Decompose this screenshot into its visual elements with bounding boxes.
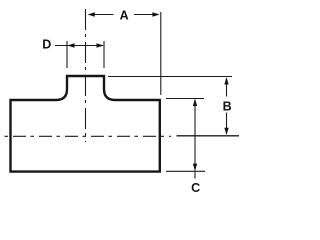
dimension D line (55, 45, 103, 47)
svg-text:A: A (120, 9, 129, 23)
svg-text:C: C (191, 181, 200, 195)
vertical centerline (branch axis) (85, 9, 87, 142)
dimension A line (left segment) (89, 14, 114, 16)
extension line for A (right end of body) (160, 12, 162, 95)
svg-text:D: D (42, 37, 51, 51)
dimension C bottom arrowhead (193, 164, 197, 171)
dimension D left arrowhead (67, 43, 74, 47)
dimension B line (upper segment) (226, 78, 228, 97)
extension line for D (branch right wall) (103, 41, 105, 68)
dimension B top arrowhead (224, 77, 228, 84)
dimension B bottom arrowhead (224, 128, 228, 135)
dimension A line (right segment) (134, 14, 159, 16)
dimension C line (194, 100, 196, 171)
svg-text:B: B (223, 99, 232, 113)
dimension C top arrowhead (193, 99, 197, 106)
tee body outline (11, 76, 160, 172)
dimension A right arrowhead (152, 12, 159, 17)
dimension D right arrowhead (97, 43, 104, 47)
centerline solid extension to right edge (177, 135, 240, 137)
dimension B line (lower segment) (226, 113, 228, 135)
extension line from body top (for C) (166, 98, 204, 100)
extension line from body bottom (for C) (166, 170, 205, 172)
horizontal centerline (run axis) (5, 135, 172, 137)
leader stub below body to label C (194, 172, 196, 179)
extension line from branch top face (for B) (108, 76, 232, 78)
dimension A left arrowhead (88, 12, 95, 17)
extension line for D (branch left wall) (66, 41, 68, 68)
